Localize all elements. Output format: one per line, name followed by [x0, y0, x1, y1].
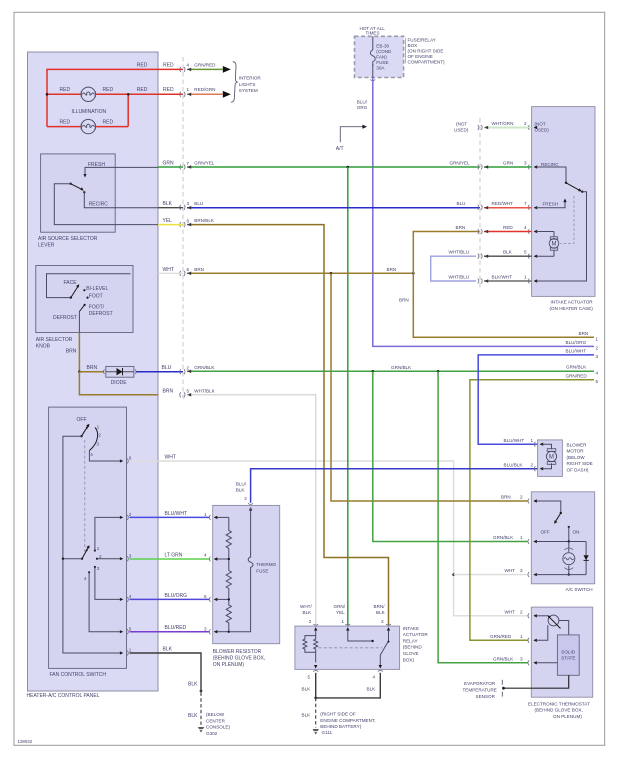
connector arrowheads C2 — [484, 126, 488, 283]
svg-text:(ON RIGHT SIDE: (ON RIGHT SIDE — [408, 49, 444, 54]
svg-text:BLU/WHT: BLU/WHT — [504, 438, 525, 443]
svg-text:7: 7 — [524, 201, 527, 206]
wire RED bottom row left — [47, 126, 81, 128]
junction right red — [127, 93, 130, 96]
svg-text:FAN): FAN) — [376, 55, 387, 60]
svg-text:BRN: BRN — [163, 388, 174, 394]
wire BLU/RED fan pin5 to resistor pin3 — [130, 631, 210, 633]
wire WHT fan pin6 net — [130, 461, 529, 616]
lower common stub — [63, 558, 82, 560]
svg-text:INTAKE ACTUATOR: INTAKE ACTUATOR — [551, 300, 594, 305]
svg-text:2: 2 — [99, 554, 102, 559]
wire BLK dashed to G111 — [315, 698, 317, 728]
wire WHT branch to A/C pin3 — [454, 574, 528, 576]
A/C switch blade — [536, 501, 561, 513]
svg-text:FUSE: FUSE — [256, 569, 268, 574]
svg-text:3: 3 — [381, 619, 384, 624]
A/C switch box — [531, 492, 594, 584]
svg-text:4: 4 — [187, 62, 190, 67]
svg-text:FRESH: FRESH — [543, 202, 559, 207]
svg-text:WHT/GRN: WHT/GRN — [492, 121, 514, 126]
svg-text:M: M — [549, 455, 554, 461]
svg-text:2: 2 — [129, 512, 132, 517]
wire RED right drop — [127, 94, 129, 126]
wire RED middle row right — [96, 93, 183, 95]
svg-text:3: 3 — [96, 441, 99, 446]
svg-text:(BEHIND GLOVE BOX,: (BEHIND GLOVE BOX, — [213, 655, 266, 661]
svg-text:BRN: BRN — [399, 298, 409, 303]
svg-text:YEL: YEL — [336, 610, 345, 615]
connector arrowheads C1 — [187, 68, 191, 397]
contact BI-LEVEL — [83, 289, 85, 291]
net WHT/BLK to relay pin2 — [187, 395, 316, 626]
junction GRN/BLK drop2 — [437, 370, 440, 373]
diode D1 — [104, 370, 137, 374]
svg-text:OF ENGINE: OF ENGINE — [408, 54, 433, 59]
svg-text:(BEHIND GLOVE BOX,: (BEHIND GLOVE BOX, — [535, 708, 583, 713]
svg-text:DEFROST: DEFROST — [89, 311, 113, 317]
svg-text:BLU/: BLU/ — [357, 99, 368, 104]
wire BRN to diode — [79, 371, 104, 373]
svg-text:RED: RED — [60, 120, 71, 126]
intake actuator relay box — [295, 626, 400, 669]
relay link dashed — [319, 647, 383, 649]
svg-text:BLU/WHT: BLU/WHT — [165, 511, 188, 517]
svg-text:WHT: WHT — [165, 455, 176, 461]
thermostat internal arrows — [533, 614, 537, 664]
svg-text:ACTUATOR: ACTUATOR — [403, 632, 429, 637]
svg-text:BLU: BLU — [194, 201, 203, 206]
svg-text:4: 4 — [129, 594, 132, 599]
svg-text:30A: 30A — [376, 66, 385, 71]
svg-text:RIGHT SIDE: RIGHT SIDE — [567, 461, 593, 466]
A/C pin3 internal — [536, 574, 586, 576]
resistor connector arcs left — [209, 503, 253, 634]
svg-text:FUSE: FUSE — [376, 60, 388, 65]
blower box edge arcs — [534, 442, 535, 472]
stub GRN pin3 — [484, 166, 532, 168]
svg-text:AIR SELECTOR: AIR SELECTOR — [36, 337, 73, 343]
svg-text:THERMO: THERMO — [256, 562, 276, 567]
svg-text:BLU/WHT: BLU/WHT — [566, 348, 587, 353]
connector C1 dashed line — [182, 57, 184, 400]
wire GRN/RED to interior lights — [187, 68, 223, 70]
svg-text:USED): USED) — [454, 128, 469, 133]
net GRN/RED right edge pin5 to thermostat pin1 — [470, 380, 594, 641]
svg-text:2: 2 — [244, 496, 247, 501]
svg-text:AIR SOURCE SELECTOR: AIR SOURCE SELECTOR — [38, 236, 98, 242]
thermostat pin3 internal — [536, 662, 557, 664]
wire RED bottom row right — [96, 126, 129, 128]
junction GRN/BLK drop1 — [372, 370, 375, 373]
svg-text:LEVER: LEVER — [38, 242, 55, 248]
svg-text:BLU/ORG: BLU/ORG — [165, 593, 188, 599]
junction BLK ground — [314, 697, 317, 700]
net BRN row — [187, 272, 413, 274]
svg-text:BOX): BOX) — [403, 657, 415, 662]
relay pin4 arrow out — [379, 665, 382, 669]
net GRN/BLK row — [187, 370, 594, 372]
blower motor M2 — [543, 444, 552, 449]
svg-text:ORG: ORG — [357, 105, 368, 110]
fan pin connector arcs — [127, 459, 128, 656]
A/C pin1 internal — [536, 541, 586, 543]
intake box edge arcs — [528, 125, 529, 284]
svg-text:G111: G111 — [322, 730, 333, 735]
svg-text:3: 3 — [129, 553, 132, 558]
net GRN/YEL row — [187, 166, 480, 168]
stub RED/WHT pin7 — [484, 207, 532, 209]
thermostat pin1 internal — [536, 625, 548, 640]
svg-text:1: 1 — [531, 438, 534, 443]
svg-text:BRN: BRN — [66, 348, 77, 354]
svg-text:WHT: WHT — [505, 609, 516, 614]
blower resistor box — [213, 505, 280, 643]
svg-text:ON PLENUM): ON PLENUM) — [213, 662, 245, 668]
svg-text:BRN: BRN — [387, 267, 397, 272]
svg-text:GRN/: GRN/ — [334, 604, 346, 609]
svg-text:A/T: A/T — [336, 146, 344, 152]
svg-text:GRN/YEL: GRN/YEL — [450, 161, 471, 166]
fan switch common — [63, 436, 121, 653]
svg-text:2: 2 — [98, 432, 101, 437]
svg-text:1: 1 — [97, 546, 100, 551]
svg-text:BLU/BLK: BLU/BLK — [504, 462, 524, 467]
switch blade air selector — [71, 287, 78, 298]
svg-text:CENTER: CENTER — [206, 718, 226, 723]
svg-text:HEATER-A/C CONTROL PANEL: HEATER-A/C CONTROL PANEL — [27, 693, 100, 699]
air selector slot path — [47, 274, 131, 298]
junction resistor taps — [228, 558, 230, 560]
svg-text:4: 4 — [596, 370, 599, 375]
svg-text:ON PLENUM): ON PLENUM) — [553, 714, 582, 719]
svg-text:SENSOR: SENSOR — [476, 694, 496, 699]
fan switch blade lower — [82, 548, 88, 559]
wire air source common — [54, 184, 158, 225]
svg-text:BLK: BLK — [163, 201, 173, 207]
blower internal arrows — [540, 443, 544, 471]
svg-text:SOLID: SOLID — [561, 649, 575, 654]
wire BLU/WHT fan pin2 to resistor pin1 — [130, 516, 210, 518]
inline connector BLK — [200, 690, 203, 693]
svg-text:1: 1 — [596, 336, 599, 341]
svg-text:STATE: STATE — [561, 656, 575, 661]
svg-text:4: 4 — [90, 452, 93, 457]
svg-text:M: M — [552, 242, 557, 248]
svg-text:TEMPERATURE: TEMPERATURE — [463, 688, 497, 693]
svg-text:OFF: OFF — [77, 417, 87, 423]
svg-text:GRN/BLK: GRN/BLK — [493, 535, 514, 540]
resistor element R1 — [226, 517, 231, 559]
svg-text:5: 5 — [308, 675, 311, 680]
intake motor M1 — [537, 231, 555, 233]
contact 1 lower — [94, 549, 96, 551]
junction WHT to A/C switch — [452, 573, 455, 576]
connector C2 terminals — [478, 125, 482, 284]
svg-text:1: 1 — [129, 648, 132, 653]
junction left red — [46, 93, 49, 96]
svg-text:BLK: BLK — [367, 687, 377, 692]
stub RED pin4 — [484, 231, 532, 233]
svg-text:5: 5 — [524, 250, 527, 255]
svg-text:RED: RED — [103, 120, 114, 126]
A/C diode D2 — [585, 542, 587, 575]
svg-text:BLOWER: BLOWER — [567, 442, 588, 447]
svg-text:SYSTEM: SYSTEM — [239, 88, 258, 93]
net BRN/BLK from air source to relay pin3 — [187, 225, 389, 626]
svg-text:EVAPORATOR: EVAPORATOR — [464, 681, 496, 686]
wire BRN knob to diode node — [78, 333, 80, 372]
intake actuator box — [532, 107, 595, 297]
junction BRN loop — [412, 272, 415, 275]
svg-text:5: 5 — [129, 626, 132, 631]
connector C2 dashed line — [479, 118, 481, 288]
svg-text:LIGHTS: LIGHTS — [239, 82, 256, 87]
intake switch blade — [565, 182, 567, 184]
brace interior lights system — [231, 62, 238, 103]
svg-text:1: 1 — [520, 634, 523, 639]
svg-text:BLK: BLK — [376, 610, 386, 615]
svg-text:EB-30: EB-30 — [376, 43, 389, 48]
mechanical link dashed — [84, 440, 86, 552]
stub WHT row6 — [158, 272, 183, 274]
contact FOOT/DEFROST — [84, 304, 86, 306]
svg-text:6: 6 — [204, 594, 207, 599]
wire RED middle row left — [47, 93, 81, 95]
svg-text:(COND: (COND — [376, 49, 392, 54]
svg-text:BLK: BLK — [302, 713, 312, 718]
A/C box edge arcs — [528, 499, 529, 578]
svg-text:2: 2 — [524, 121, 527, 126]
svg-text:GRN/BLK: GRN/BLK — [194, 365, 215, 370]
svg-text:(ON HEATER CASE): (ON HEATER CASE) — [550, 306, 594, 311]
wire BLK fan pin1 to ground G302 — [130, 653, 202, 691]
ground G111 — [313, 729, 319, 735]
svg-text:BLK/WHT: BLK/WHT — [492, 275, 513, 280]
svg-text:YEL: YEL — [163, 218, 173, 224]
svg-text:1: 1 — [520, 535, 523, 540]
svg-text:(NOT: (NOT — [535, 121, 546, 126]
svg-text:RED: RED — [137, 87, 148, 93]
svg-text:RELAY: RELAY — [403, 638, 418, 643]
air selector knob box — [36, 266, 133, 333]
label FUSE/RELAY BOX — [405, 38, 407, 63]
svg-text:RED: RED — [163, 87, 174, 93]
svg-text:WHT/: WHT/ — [300, 604, 312, 609]
svg-text:(BELOW: (BELOW — [567, 455, 586, 460]
sensor to solid state — [559, 621, 569, 635]
svg-text:GRN/YEL: GRN/YEL — [194, 161, 215, 166]
wire BLK dashed to ground — [200, 693, 202, 726]
svg-text:2: 2 — [596, 345, 599, 350]
stub BLK air source recirc — [158, 207, 183, 209]
stub BLK pin5 — [484, 255, 532, 257]
connector arc below fuse box — [370, 80, 375, 81]
A/C ON contact — [568, 526, 570, 528]
svg-text:BLU/RED: BLU/RED — [165, 625, 187, 631]
relay armature blade — [380, 630, 388, 666]
svg-text:FOOT: FOOT — [89, 293, 103, 299]
thermo fuse F1 — [229, 508, 253, 632]
svg-text:RED: RED — [163, 62, 174, 68]
svg-text:ELECTRONIC THERMOSTAT: ELECTRONIC THERMOSTAT — [528, 701, 590, 706]
relay contact from pin1 — [348, 630, 373, 641]
wire BLK relay pin5 — [315, 673, 317, 698]
svg-text:(BELOW: (BELOW — [206, 712, 225, 717]
svg-text:BLU: BLU — [457, 201, 466, 206]
wire GRN/BLK drop to thermostat pin3 — [438, 371, 528, 663]
svg-text:WHT: WHT — [163, 267, 174, 273]
svg-text:BLU/ORG: BLU/ORG — [566, 340, 587, 345]
wire contact1 to pin2 — [95, 517, 121, 550]
svg-text:4: 4 — [204, 553, 207, 558]
svg-text:3: 3 — [204, 626, 207, 631]
svg-text:3: 3 — [520, 568, 523, 573]
svg-text:6: 6 — [187, 267, 190, 272]
svg-text:BRN: BRN — [501, 495, 511, 500]
solid state box — [557, 635, 579, 675]
wire BLU/ORG fan pin4 to resistor pin6 — [130, 598, 210, 600]
svg-text:BLK: BLK — [303, 610, 313, 615]
svg-text:139032: 139032 — [18, 739, 33, 744]
svg-text:2: 2 — [520, 609, 523, 614]
svg-text:INTERIOR: INTERIOR — [239, 76, 262, 81]
svg-text:BLOWER RESISTOR: BLOWER RESISTOR — [213, 649, 262, 655]
fan control switch box — [49, 407, 127, 668]
svg-text:KNOB: KNOB — [36, 344, 51, 350]
svg-text:2: 2 — [187, 366, 190, 371]
wire contact3 to pin4 — [95, 567, 121, 599]
svg-text:4: 4 — [84, 576, 87, 581]
svg-text:RED: RED — [137, 62, 148, 68]
svg-text:RED: RED — [503, 225, 513, 230]
resistor element R2 — [226, 559, 231, 599]
svg-text:BRN/: BRN/ — [374, 604, 386, 609]
contact FOOT — [86, 297, 88, 299]
svg-text:1: 1 — [204, 512, 207, 517]
svg-text:7: 7 — [187, 161, 190, 166]
lamp illumination 1 — [81, 87, 95, 101]
wire GRN/YEL drop to relay pin1 — [347, 167, 349, 626]
relay coil with parallel resistor — [303, 630, 316, 652]
air source selector lever box — [41, 154, 116, 232]
wire BLU/BLK blower to resistor pin2 — [251, 469, 538, 503]
svg-text:(NOT: (NOT — [456, 121, 467, 126]
intake internal arrows — [534, 126, 538, 283]
svg-text:BRN/BLK: BRN/BLK — [194, 218, 215, 223]
svg-text:2: 2 — [309, 619, 312, 624]
intake internal RECIRC contact — [537, 167, 567, 183]
svg-text:RECIRC: RECIRC — [89, 202, 109, 208]
heater-A/C control panel box — [28, 52, 159, 691]
blower motor box — [538, 440, 563, 477]
wire FRESH contact — [85, 167, 158, 176]
svg-text:BRN: BRN — [194, 267, 204, 272]
contact 2 lower — [96, 558, 98, 560]
svg-text:2: 2 — [531, 462, 534, 467]
svg-text:BLK: BLK — [163, 647, 173, 653]
svg-text:BLK: BLK — [302, 687, 312, 692]
relay coil arrows in — [314, 627, 390, 631]
svg-text:BEHIND BATTERY): BEHIND BATTERY) — [320, 724, 361, 729]
contact 4 lower — [88, 571, 90, 573]
svg-text:ENGINE COMPARTMENT,: ENGINE COMPARTMENT, — [320, 718, 375, 723]
wire BRN drop to A/C pin2 — [331, 273, 528, 501]
svg-text:G302: G302 — [206, 731, 218, 736]
svg-text:RED/GRN: RED/GRN — [194, 87, 215, 92]
svg-text:CONSOLE): CONSOLE) — [206, 725, 230, 730]
lamp illumination 2 — [81, 119, 95, 133]
wire evaporator sensor to solid state — [502, 687, 505, 690]
svg-text:2: 2 — [520, 495, 523, 500]
wire BRN diode bypass — [79, 372, 158, 395]
svg-text:BLU/: BLU/ — [236, 481, 247, 486]
connector C1 terminals — [180, 67, 185, 397]
svg-text:WHT/BLK: WHT/BLK — [194, 388, 215, 393]
svg-text:GRN: GRN — [163, 161, 175, 167]
svg-text:4: 4 — [524, 225, 527, 230]
svg-text:GRN: GRN — [503, 161, 513, 166]
svg-text:BLK: BLK — [236, 488, 246, 493]
svg-text:GRN/RED: GRN/RED — [566, 373, 588, 378]
intake switch common to pin1 — [537, 192, 587, 281]
wire contact4 to pin5 — [89, 572, 121, 631]
svg-text:FAN CONTROL SWITCH: FAN CONTROL SWITCH — [50, 672, 107, 678]
wire LT GRN fan pin3 to resistor pin4 — [130, 558, 210, 560]
ground G302 — [198, 727, 204, 733]
svg-text:3: 3 — [520, 656, 523, 661]
svg-text:WHT/BLU: WHT/BLU — [449, 275, 470, 280]
svg-text:BOX: BOX — [408, 43, 418, 48]
wire RED/GRN to interior lights — [187, 93, 223, 95]
wire BLU/ORG from fuse to right edge pin2 — [373, 78, 594, 347]
svg-text:3: 3 — [596, 354, 599, 359]
net BLU row — [187, 207, 480, 209]
thermostat box edge arcs — [528, 613, 529, 665]
wire BRN loop to intake pin4 and right edge pin1 — [413, 232, 594, 338]
svg-text:GRN/BLK: GRN/BLK — [391, 365, 412, 370]
resistor element R3 — [226, 599, 231, 631]
wire RECIRC contact — [84, 192, 158, 207]
svg-text:4: 4 — [373, 675, 376, 680]
svg-text:(RIGHT SIDE OF: (RIGHT SIDE OF — [320, 712, 356, 717]
wire fan pin6 — [89, 451, 120, 461]
svg-text:ILLUMINATION: ILLUMINATION — [72, 109, 107, 115]
stub GRN air source fresh — [158, 166, 183, 168]
svg-text:BLK: BLK — [503, 250, 513, 255]
svg-text:WHT: WHT — [505, 568, 516, 573]
svg-text:3: 3 — [524, 161, 527, 166]
svg-text:FUSE/RELAY: FUSE/RELAY — [408, 37, 436, 42]
svg-text:(BEHIND: (BEHIND — [403, 645, 423, 650]
svg-text:GRN/BLK: GRN/BLK — [493, 656, 514, 661]
svg-text:GRN/RED: GRN/RED — [490, 634, 512, 639]
svg-text:RED/WHT: RED/WHT — [492, 201, 514, 206]
wire BLU diode to connector — [136, 371, 183, 373]
svg-text:GRN/BLK: GRN/BLK — [566, 365, 587, 370]
junction GRN/YEL drop — [347, 166, 350, 169]
svg-text:6: 6 — [187, 218, 190, 223]
svg-text:5: 5 — [187, 389, 190, 394]
A/C indicator lamp — [568, 542, 570, 552]
svg-text:GRN/RED: GRN/RED — [194, 62, 216, 67]
svg-text:BLU: BLU — [162, 365, 172, 371]
svg-text:FOOT/: FOOT/ — [89, 305, 105, 311]
svg-text:BLK: BLK — [188, 713, 198, 719]
svg-text:TIMES: TIMES — [366, 30, 380, 35]
electronic thermostat box — [531, 607, 592, 697]
svg-text:MOTOR: MOTOR — [567, 449, 585, 454]
